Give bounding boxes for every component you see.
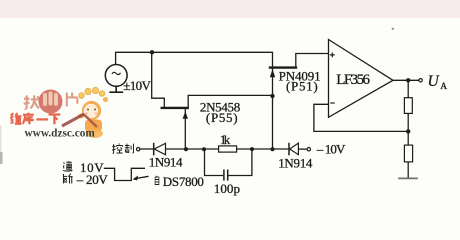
svg-text:1k: 1k [220,132,231,147]
svg-text:A: A [440,82,447,92]
svg-text:(P51): (P51) [286,79,318,94]
svg-text:www.dzsc.com: www.dzsc.com [25,128,96,140]
svg-text:– 20V: – 20V [76,172,109,187]
svg-text:– 10V: – 10V [316,142,346,157]
svg-text:±10V: ±10V [123,78,151,93]
svg-text:LF356: LF356 [336,72,370,88]
svg-text:1N914: 1N914 [149,155,183,170]
svg-text:(P55): (P55) [206,110,238,125]
svg-text:1N914: 1N914 [278,155,313,170]
svg-text:DS7800: DS7800 [163,174,204,189]
svg-text:100p: 100p [214,181,240,196]
svg-text:U: U [428,73,441,90]
